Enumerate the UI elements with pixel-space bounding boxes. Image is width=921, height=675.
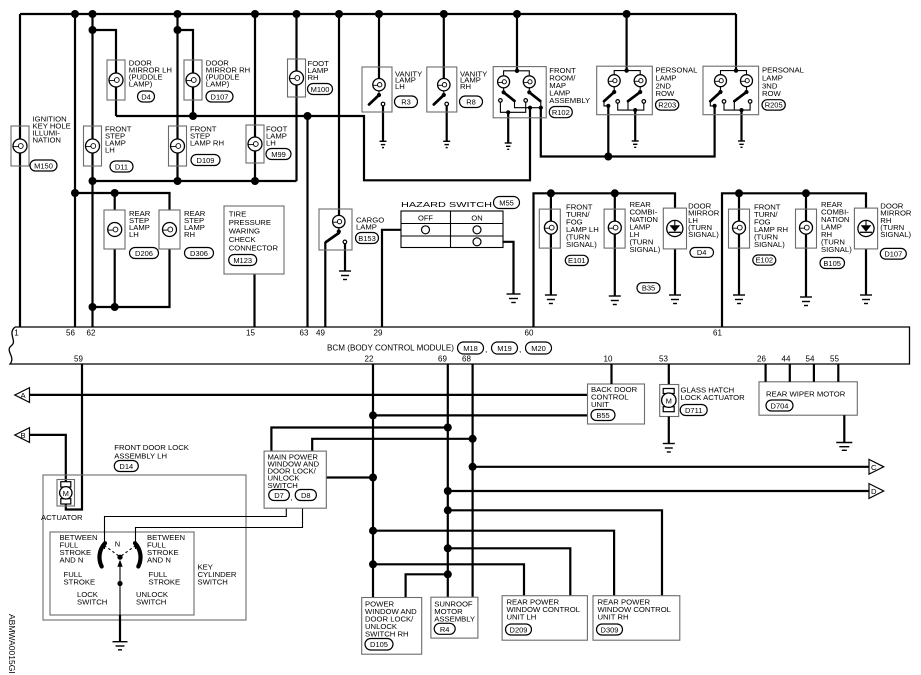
svg-text:ASSEMBLY: ASSEMBLY xyxy=(549,96,590,105)
ground (glass hatch actuator) xyxy=(663,444,675,453)
wire: D7/D8 switch to pin 22 xyxy=(326,476,373,478)
svg-text:M99: M99 xyxy=(271,150,286,159)
svg-text:LAMP RH: LAMP RH xyxy=(190,139,224,148)
node D (connector arrow D) xyxy=(869,484,884,499)
lamp E102 FRONT TURN/FOG LAMP RH (TURN SIGNAL) xyxy=(729,202,789,265)
back door control unit B55 xyxy=(588,384,645,424)
ground (E102) xyxy=(733,295,745,304)
svg-text:D105: D105 xyxy=(370,640,388,649)
junction dots on pin 68 xyxy=(469,435,477,443)
svg-text:,: , xyxy=(519,344,521,354)
lamp E101 FRONT TURN/FOG LAMP LH (TURN SIGNAL) xyxy=(539,202,598,265)
ground (R102) xyxy=(505,143,512,149)
wire: pin 22 to rear power window control unit LH xyxy=(373,564,524,595)
svg-text:26: 26 xyxy=(757,355,766,364)
wire: D7/D8 switch to pin 68 xyxy=(312,439,472,451)
wire: R102 ground drop xyxy=(507,112,509,143)
wire: feed to BCM pin 56 xyxy=(74,14,76,327)
svg-text:RH: RH xyxy=(308,73,319,82)
node A (connector arrow A) xyxy=(15,388,30,403)
wire: R3 switch to ground xyxy=(382,106,384,142)
wire: D206 feed xyxy=(114,193,116,210)
wire: B35 drop to ground xyxy=(614,193,616,296)
svg-text:55: 55 xyxy=(830,355,839,364)
wire: BCM pin 60 turn signal feed LH xyxy=(534,193,676,327)
lamp D109 FRONT STEP LAMP RH xyxy=(169,125,225,167)
svg-text:M: M xyxy=(666,396,672,405)
svg-text:61: 61 xyxy=(713,329,722,338)
svg-text:D109: D109 xyxy=(197,156,215,165)
ground (E101) xyxy=(545,295,557,304)
svg-text:RH: RH xyxy=(184,230,195,239)
svg-text:SWITCH: SWITCH xyxy=(198,578,228,587)
svg-text:R102: R102 xyxy=(552,108,570,117)
svg-text:ROW: ROW xyxy=(656,89,676,98)
svg-text:54: 54 xyxy=(806,355,815,364)
wire: C line from pin 68 xyxy=(473,466,869,468)
wire: branch to D107 puddle lamp xyxy=(178,30,194,116)
svg-text:A: A xyxy=(21,391,27,400)
svg-text:D309: D309 xyxy=(601,626,619,635)
door lock actuator motor M xyxy=(41,480,83,523)
wire: D206 return xyxy=(114,249,116,307)
wire: BCM pin 26 to wiper xyxy=(764,364,766,382)
svg-text:LH: LH xyxy=(129,230,139,239)
turn signal LED D107 DOOR MIRROR RH (TURN SIGNAL) xyxy=(854,201,912,259)
glass hatch lock actuator D711 xyxy=(660,385,745,417)
svg-text:22: 22 xyxy=(365,355,374,364)
svg-text:SIGNAL): SIGNAL) xyxy=(754,240,785,249)
key cylinder switch box xyxy=(50,532,237,615)
svg-text:LH: LH xyxy=(266,139,276,148)
svg-text:B55: B55 xyxy=(596,411,609,420)
svg-text:D4: D4 xyxy=(697,248,707,257)
svg-text:56: 56 xyxy=(66,329,75,338)
wire: cargo lamp to BCM pin 49 xyxy=(324,242,326,327)
svg-text:63: 63 xyxy=(300,329,309,338)
svg-text:STROKE: STROKE xyxy=(149,578,181,587)
svg-text:SWITCH RH: SWITCH RH xyxy=(365,629,409,638)
wire: BCM pin 44 to wiper xyxy=(789,364,791,382)
svg-text:D7: D7 xyxy=(274,491,284,500)
wire: step/foot lamp return bus (y181) xyxy=(93,180,297,182)
svg-text:,: , xyxy=(291,493,293,502)
wire: rear step lamp feed branch (y193) xyxy=(75,193,170,210)
svg-text:49: 49 xyxy=(316,329,325,338)
wire: feed to personal lamp R203 xyxy=(625,14,627,71)
wire: pin 22 to back door control unit xyxy=(373,414,588,416)
wire: R203 ground drop xyxy=(634,110,636,141)
svg-text:AND N: AND N xyxy=(147,556,171,565)
junction dots on pin 69 xyxy=(444,424,452,432)
wire: R102/R203/R205 personal lamp link (y156) xyxy=(541,106,715,157)
ground (R205) xyxy=(738,141,745,147)
ground (rear wiper motor) xyxy=(836,443,852,451)
svg-text:ACTUATOR: ACTUATOR xyxy=(41,513,83,522)
svg-text:SWITCH: SWITCH xyxy=(268,481,298,490)
svg-text:M123: M123 xyxy=(233,256,252,265)
svg-text:BCM (BODY CONTROL MODULE): BCM (BODY CONTROL MODULE) xyxy=(327,343,454,353)
svg-text:69: 69 xyxy=(438,355,447,364)
wire: feed through M99 xyxy=(254,14,256,181)
svg-text:ASSEMBLY: ASSEMBLY xyxy=(434,614,475,623)
svg-text:60: 60 xyxy=(525,329,534,338)
ground (R8) xyxy=(443,141,450,147)
svg-text:B: B xyxy=(21,431,26,440)
wire: BCM pin 55 to wiper xyxy=(837,364,839,382)
ground (D107 turn signal) xyxy=(860,295,872,304)
lamp D206 REAR STEP LAMP LH xyxy=(104,209,159,259)
ground (B35) xyxy=(609,296,621,305)
node C (connector arrow C) xyxy=(869,459,884,474)
wire: pin 69 branch to D105 xyxy=(406,574,448,597)
svg-text:D306: D306 xyxy=(190,249,208,258)
front room/map lamp assembly R102 xyxy=(493,66,590,118)
turn signal LED D4 DOOR MIRROR LH (TURN SIGNAL) xyxy=(663,201,719,257)
wire: wiper motor to ground xyxy=(843,415,845,442)
svg-text:LAMP): LAMP) xyxy=(206,80,230,89)
svg-text:D: D xyxy=(871,487,877,496)
svg-text:D206: D206 xyxy=(135,249,153,258)
svg-text:B35: B35 xyxy=(642,284,655,293)
svg-text:D107: D107 xyxy=(211,93,229,102)
lamp D107 DOOR MIRROR RH (PUDDLE LAMP) xyxy=(184,59,250,103)
wire: D4 turn signal to ground xyxy=(674,249,676,295)
lamp B105 REAR COMBINATION LAMP RH (TURN SIGNAL) xyxy=(796,200,853,269)
svg-text:UNIT RH: UNIT RH xyxy=(598,613,629,622)
key cylinder rotary switch symbol xyxy=(99,543,140,615)
svg-text:R3: R3 xyxy=(401,98,411,107)
wire: BCM pin 10 to B55 xyxy=(610,364,612,384)
rear power window control unit RH D309 xyxy=(593,596,680,641)
svg-text:ASSEMBLY LH: ASSEMBLY LH xyxy=(114,452,167,461)
wire: pin 69 to rear power window control unit LH xyxy=(448,548,571,595)
junction dots turn signal feeds xyxy=(547,189,555,197)
lamp D306 REAR STEP LAMP RH xyxy=(159,209,214,259)
svg-text:RH: RH xyxy=(460,82,471,91)
lamp D4 DOOR MIRROR LH (PUDDLE LAMP) xyxy=(107,59,172,103)
wire: top supply bus xyxy=(20,13,736,15)
svg-text:UNIT: UNIT xyxy=(591,400,609,409)
svg-text:D107: D107 xyxy=(884,250,902,259)
wire: B105 drop to ground xyxy=(805,193,807,297)
wire: BCM pin 69 down to R4 xyxy=(447,364,449,597)
svg-text:SIGNAL): SIGNAL) xyxy=(566,240,597,249)
wire: D line from pin 69 xyxy=(448,490,869,492)
svg-text:1: 1 xyxy=(14,329,19,338)
wire: BCM pin 54 to wiper xyxy=(813,364,815,382)
svg-text:LAMP): LAMP) xyxy=(129,80,153,89)
wire: pin 69 to rear power window control unit RH xyxy=(448,510,662,595)
wire: feed to cargo lamp B153 xyxy=(338,14,340,221)
wire: feed to M150 / BCM pin 1 xyxy=(19,14,21,327)
wire: puddle-lamp net to BCM pin 63 and R102 xyxy=(116,108,530,181)
svg-text:M18: M18 xyxy=(463,344,478,353)
svg-text:E102: E102 xyxy=(756,256,774,265)
svg-text:N: N xyxy=(115,540,120,549)
wire: E101 drop to ground xyxy=(550,193,552,295)
junction dots puddle branch xyxy=(89,26,97,34)
ground (hazard switch) xyxy=(507,294,521,303)
power window and door lock/unlock switch RH D105 xyxy=(362,598,422,655)
svg-text:SWITCH: SWITCH xyxy=(136,598,166,607)
svg-text:R203: R203 xyxy=(658,101,676,110)
svg-text:ABMWA0015GI: ABMWA0015GI xyxy=(7,614,17,674)
svg-text:E101: E101 xyxy=(568,256,586,265)
svg-text:UNIT LH: UNIT LH xyxy=(507,613,537,622)
wire: D107 turn signal to ground xyxy=(865,249,867,295)
svg-text:68: 68 xyxy=(462,355,471,364)
svg-text:R8: R8 xyxy=(466,98,476,107)
wire: unlock switch to D7/D8 (thin) xyxy=(136,508,303,549)
svg-text:B153: B153 xyxy=(358,234,376,243)
vanity lamp R8 with switch xyxy=(427,67,487,112)
svg-text:LAMP: LAMP xyxy=(356,223,377,232)
svg-text:STROKE: STROKE xyxy=(64,578,96,587)
svg-text:10: 10 xyxy=(604,355,613,364)
wire: BCM pin 61 turn signal feed RH xyxy=(722,193,866,327)
wire: feed through M100 xyxy=(295,14,297,181)
svg-text:M20: M20 xyxy=(531,344,546,353)
wire: feed to map lamp assembly R102 xyxy=(516,14,518,71)
svg-text:M19: M19 xyxy=(497,344,512,353)
hazard switch M55 xyxy=(401,197,520,248)
svg-text:OFF: OFF xyxy=(418,214,433,223)
ground (cargo lamp) xyxy=(339,271,351,280)
junction dot personal lamp link xyxy=(604,153,612,161)
svg-text:R4: R4 xyxy=(440,625,450,634)
wire: E102 drop to ground xyxy=(738,193,740,295)
rear wiper motor D704 xyxy=(759,382,857,415)
svg-text:M55: M55 xyxy=(499,199,514,208)
personal lamp 3nd row R205 xyxy=(703,66,805,115)
lamp D11 FRONT STEP LAMP LH xyxy=(84,125,134,173)
svg-text:HAZARD SWITCH: HAZARD SWITCH xyxy=(401,200,492,209)
svg-text:SWITCH: SWITCH xyxy=(77,598,107,607)
lamp B35 REAR COMBINATION LAMP LH (TURN SIGNAL) xyxy=(604,200,661,293)
ground (B105) xyxy=(800,297,812,306)
wire: hazard switch to ground xyxy=(503,242,514,294)
wire: D306 return xyxy=(93,249,170,307)
wire: BCM pin 59 to actuator xyxy=(66,364,82,510)
svg-text:D704: D704 xyxy=(771,402,789,411)
svg-text:LOCK ACTUATOR: LOCK ACTUATOR xyxy=(681,393,746,402)
svg-text:B105: B105 xyxy=(823,259,841,268)
BCM (BODY CONTROL MODULE) connector strip xyxy=(9,327,909,364)
wire: D7/D8 switch to pin 69 xyxy=(271,428,447,452)
node B (connector arrow B) xyxy=(15,428,30,443)
svg-text:ROW: ROW xyxy=(762,89,782,98)
svg-text:53: 53 xyxy=(659,355,668,364)
wire: R8 switch to ground xyxy=(446,106,448,142)
svg-text:,: , xyxy=(485,344,487,354)
svg-text:SIGNAL): SIGNAL) xyxy=(630,245,661,254)
wire: cargo lamp switch to ground xyxy=(344,242,346,271)
wire: A line to back door control unit xyxy=(30,394,588,396)
junction dots top bus xyxy=(71,10,79,18)
svg-text:LH: LH xyxy=(395,82,405,91)
wire: pin 22 to rear power window control unit RH xyxy=(373,531,614,596)
svg-text:59: 59 xyxy=(74,355,83,364)
ground (R3) xyxy=(380,141,387,147)
wire: glass hatch actuator to ground xyxy=(668,417,670,444)
svg-text:M: M xyxy=(63,489,69,498)
wire: feed to vanity lamp R8 xyxy=(443,14,445,85)
front door lock assembly LH outer box xyxy=(43,443,246,620)
svg-text:D209: D209 xyxy=(510,626,528,635)
wire: feed through D109 xyxy=(176,14,178,181)
wire: hazard switch to BCM pin 29 xyxy=(382,230,401,327)
svg-text:M150: M150 xyxy=(34,162,53,171)
svg-text:29: 29 xyxy=(374,329,383,338)
svg-text:44: 44 xyxy=(782,355,791,364)
svg-text:D711: D711 xyxy=(685,406,702,415)
wire: lock switch to D7/D8 (thin) xyxy=(105,508,287,549)
wire: key cylinder to ground xyxy=(119,615,121,642)
wire: R203 output drop xyxy=(607,106,609,157)
svg-text:CONNECTOR: CONNECTOR xyxy=(229,244,279,253)
junction dots on pin 22 xyxy=(369,411,377,419)
lamp M150 IGNITION KEY HOLE ILLUMINATION xyxy=(11,115,71,172)
svg-text:SIGNAL): SIGNAL) xyxy=(821,245,852,254)
wire: BCM pin 53 to glass hatch actuator xyxy=(668,364,670,385)
junction dots step lamp bus xyxy=(89,177,97,185)
sunroof motor assembly R4 xyxy=(431,597,478,638)
vanity lamp R3 with switch xyxy=(362,67,422,112)
svg-text:SIGNAL): SIGNAL) xyxy=(880,230,911,239)
personal lamp 2nd row R203 xyxy=(597,66,698,115)
connector M123 TIRE PRESSURE WARING CHECK CONNECTOR xyxy=(224,206,284,274)
svg-text:C: C xyxy=(871,463,877,472)
ground (R203) xyxy=(632,141,639,147)
svg-text:D11: D11 xyxy=(115,163,128,172)
svg-text:ON: ON xyxy=(471,214,482,223)
svg-text:15: 15 xyxy=(246,329,255,338)
wire: branch to D4 puddle lamp xyxy=(93,30,117,116)
svg-text:AND N: AND N xyxy=(60,556,84,565)
ground (D4 turn signal) xyxy=(669,295,681,304)
svg-text:D4: D4 xyxy=(141,93,151,102)
wire: R205 ground drop xyxy=(740,110,742,141)
main power window and door lock/unlock switch D7 D8 xyxy=(264,451,326,508)
wire: feed through D11 to BCM pin 62 xyxy=(91,14,93,327)
wire: B line to door lock actuator xyxy=(30,435,66,482)
wire: feed to vanity lamp R3 xyxy=(378,14,380,85)
cargo lamp B153 with switch xyxy=(319,209,384,250)
wire: pin 63 drop xyxy=(306,116,308,327)
svg-text:62: 62 xyxy=(87,329,96,338)
svg-text:D8: D8 xyxy=(301,491,311,500)
wire: M123 to BCM pin 15 xyxy=(253,274,255,327)
lamp M100 FOOT LAMP RH xyxy=(288,59,333,97)
svg-text:NATION: NATION xyxy=(33,136,61,145)
wire: BCM pin 68 down to R4 xyxy=(472,364,474,597)
rear power window control unit LH D209 xyxy=(502,596,587,641)
svg-text:LH: LH xyxy=(105,146,115,155)
wire: feed to personal lamp R205 xyxy=(735,14,737,71)
svg-text:REAR WIPER MOTOR: REAR WIPER MOTOR xyxy=(766,390,846,399)
ground (key cylinder switch) xyxy=(113,642,128,650)
svg-text:M100: M100 xyxy=(311,85,330,94)
svg-text:R205: R205 xyxy=(765,101,783,110)
wire: BCM pin 22 down to D105 xyxy=(372,364,374,598)
svg-text:SIGNAL): SIGNAL) xyxy=(688,230,719,239)
svg-text:D14: D14 xyxy=(119,462,133,471)
lamp M99 FOOT LAMP LH xyxy=(246,125,291,164)
